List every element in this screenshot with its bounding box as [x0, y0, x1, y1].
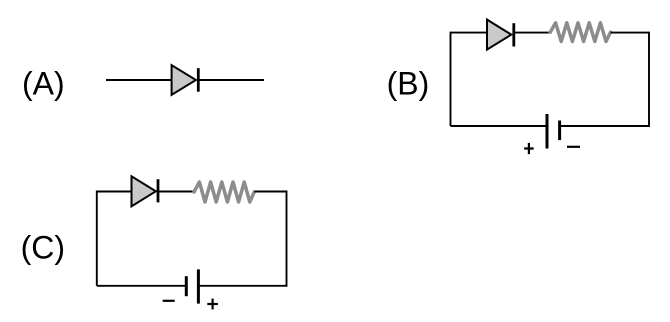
- diode D3 (circuit C): [132, 176, 156, 206]
- diode D2 cathode bar: [512, 23, 515, 46]
- svg-text:(B): (B): [387, 65, 430, 101]
- diode D1 cathode bar: [197, 68, 200, 92]
- wire (C) battery to left corner: [97, 285, 187, 287]
- wire (A) cathode lead: [198, 79, 264, 81]
- wire (C) left side and top to diode: [97, 192, 132, 286]
- battery V1 negative short plate: [558, 121, 561, 141]
- wire (B) diode to resistor: [514, 32, 551, 34]
- diode D1 (circuit A): [172, 65, 196, 95]
- wire (A) anode lead: [106, 79, 172, 81]
- wire (B) resistor to right side down to battery: [560, 33, 649, 126]
- label - (battery C): [163, 300, 175, 302]
- diode D3 cathode bar: [157, 179, 160, 202]
- svg-text:(A): (A): [22, 65, 65, 101]
- label - (battery B): [567, 146, 580, 148]
- diode D2 (circuit B): [487, 20, 511, 50]
- battery V2 positive long plate: [197, 269, 200, 303]
- svg-text:(C): (C): [21, 229, 65, 265]
- wire (B) left side and top to diode: [451, 33, 488, 126]
- label + (battery C): [207, 299, 218, 310]
- battery V1 positive long plate: [546, 114, 549, 149]
- wire (C) resistor to right side down to battery: [199, 192, 287, 286]
- battery V2 negative short plate: [185, 276, 188, 296]
- wire (B) battery to left corner: [451, 125, 548, 127]
- resistor R1 (circuit B): [550, 23, 610, 42]
- resistor R2 (circuit C): [194, 182, 254, 202]
- label + (battery B): [524, 143, 534, 154]
- wire (C) diode to resistor: [158, 191, 194, 193]
